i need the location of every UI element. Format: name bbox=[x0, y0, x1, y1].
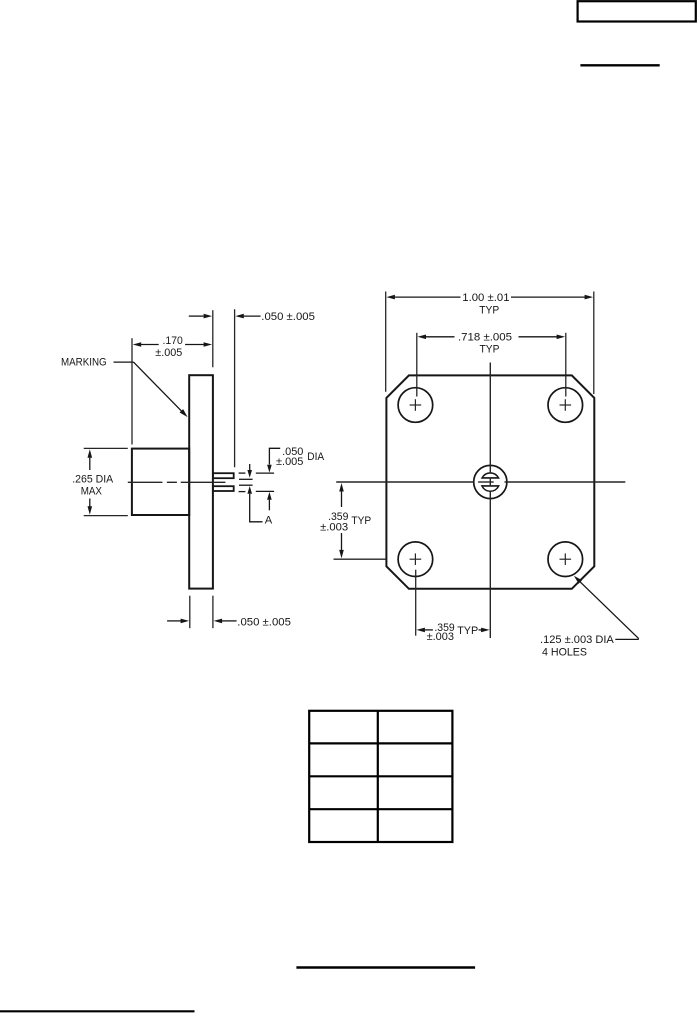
center contact slotted inner (upper segment) bbox=[482, 473, 498, 478]
contact pin lower (side view) bbox=[213, 486, 234, 491]
horizontal centerline (front view) bbox=[336, 481, 625, 483]
center contact slotted inner (lower segment) bbox=[482, 486, 499, 491]
svg-text:±.003: ±.003 bbox=[320, 521, 348, 533]
svg-text:DIA: DIA bbox=[307, 451, 324, 463]
mounting hole bottom-right bbox=[548, 542, 583, 577]
svg-text:4 HOLES: 4 HOLES bbox=[542, 646, 587, 658]
dimension .265 DIA MAX extension lines bbox=[84, 448, 128, 515]
dimension .050 flange thickness (bottom) extension lines bbox=[190, 596, 213, 629]
svg-text:±.005: ±.005 bbox=[155, 347, 182, 359]
dimension .718 extension lines bbox=[417, 333, 566, 397]
crosshair top-left hole bbox=[410, 399, 422, 411]
svg-text:.050 ±.005: .050 ±.005 bbox=[237, 617, 291, 629]
notes table (4 rows x 2 cols) bbox=[309, 711, 452, 842]
connector body (.265 dia cylinder, side view) bbox=[132, 449, 189, 515]
pin gap dimension (A) left arrow pair bbox=[239, 464, 263, 522]
svg-text:.265 DIA: .265 DIA bbox=[72, 473, 113, 485]
svg-text:TYP: TYP bbox=[351, 515, 371, 527]
figure title underline (bottom center) bbox=[296, 966, 475, 969]
svg-text:±.003: ±.003 bbox=[427, 631, 454, 643]
flange plate (side view rectangle) bbox=[189, 375, 213, 588]
dimension .170 arrows and line bbox=[133, 342, 212, 347]
crosshair bottom-left hole bbox=[410, 553, 422, 565]
crosshair top-right hole bbox=[560, 399, 572, 411]
title block box (top right) bbox=[578, 1, 696, 21]
bottom .359 dimension line and arrows bbox=[416, 628, 489, 633]
vertical centerline (front view) bbox=[489, 363, 491, 639]
svg-text:A: A bbox=[265, 515, 273, 527]
contact pin upper (side view) bbox=[213, 473, 234, 478]
dimension 1.00 line and arrows bbox=[386, 295, 593, 300]
mounting hole top-right bbox=[548, 388, 583, 423]
left .359 dimension extension line bbox=[334, 558, 387, 560]
dimension .050 top arrows bbox=[189, 314, 261, 319]
MARKING leader line with arrow bbox=[114, 362, 188, 417]
bottom .359 dimension extension line bbox=[415, 570, 417, 636]
dimension .718 line and arrows bbox=[418, 335, 566, 340]
centerline (side view axis) bbox=[128, 481, 226, 483]
svg-text:.170: .170 bbox=[163, 335, 183, 347]
footnote rule (bottom left) bbox=[0, 1010, 195, 1012]
dimension .050 bottom arrows bbox=[167, 619, 237, 624]
mounting hole bottom-left bbox=[398, 542, 433, 577]
dimension .050 flange thickness (top) extension lines bbox=[213, 309, 235, 467]
svg-text:1.00 ±.01: 1.00 ±.01 bbox=[462, 292, 509, 304]
pin dia dimension (.050 DIA) right arrow pair bbox=[256, 448, 280, 510]
hole callout leader (4 holes) bbox=[574, 576, 639, 640]
svg-text:TYP: TYP bbox=[480, 344, 500, 356]
mounting hole top-left bbox=[398, 388, 433, 423]
svg-text:.050 ±.005: .050 ±.005 bbox=[261, 311, 315, 323]
crosshair bottom-right hole bbox=[560, 553, 572, 565]
svg-text:.718 ±.005: .718 ±.005 bbox=[458, 332, 512, 344]
svg-text:.125 ±.003 DIA: .125 ±.003 DIA bbox=[540, 634, 614, 646]
dimension 1.00 extension lines bbox=[386, 292, 594, 395]
dimension .265 arrows bbox=[88, 449, 93, 514]
svg-text:±.005: ±.005 bbox=[276, 456, 303, 468]
dimension .170 extension line (left) bbox=[131, 338, 133, 444]
left .359 dimension line and arrows bbox=[339, 483, 344, 558]
svg-text:MARKING: MARKING bbox=[61, 356, 107, 368]
center contact outer circle bbox=[474, 465, 507, 498]
svg-text:TYP: TYP bbox=[457, 625, 478, 637]
svg-text:TYP: TYP bbox=[479, 304, 499, 316]
flange plate outline with chamfered corners (front view) bbox=[386, 375, 594, 588]
revision underline (top right) bbox=[580, 64, 659, 66]
svg-text:MAX: MAX bbox=[81, 486, 103, 498]
